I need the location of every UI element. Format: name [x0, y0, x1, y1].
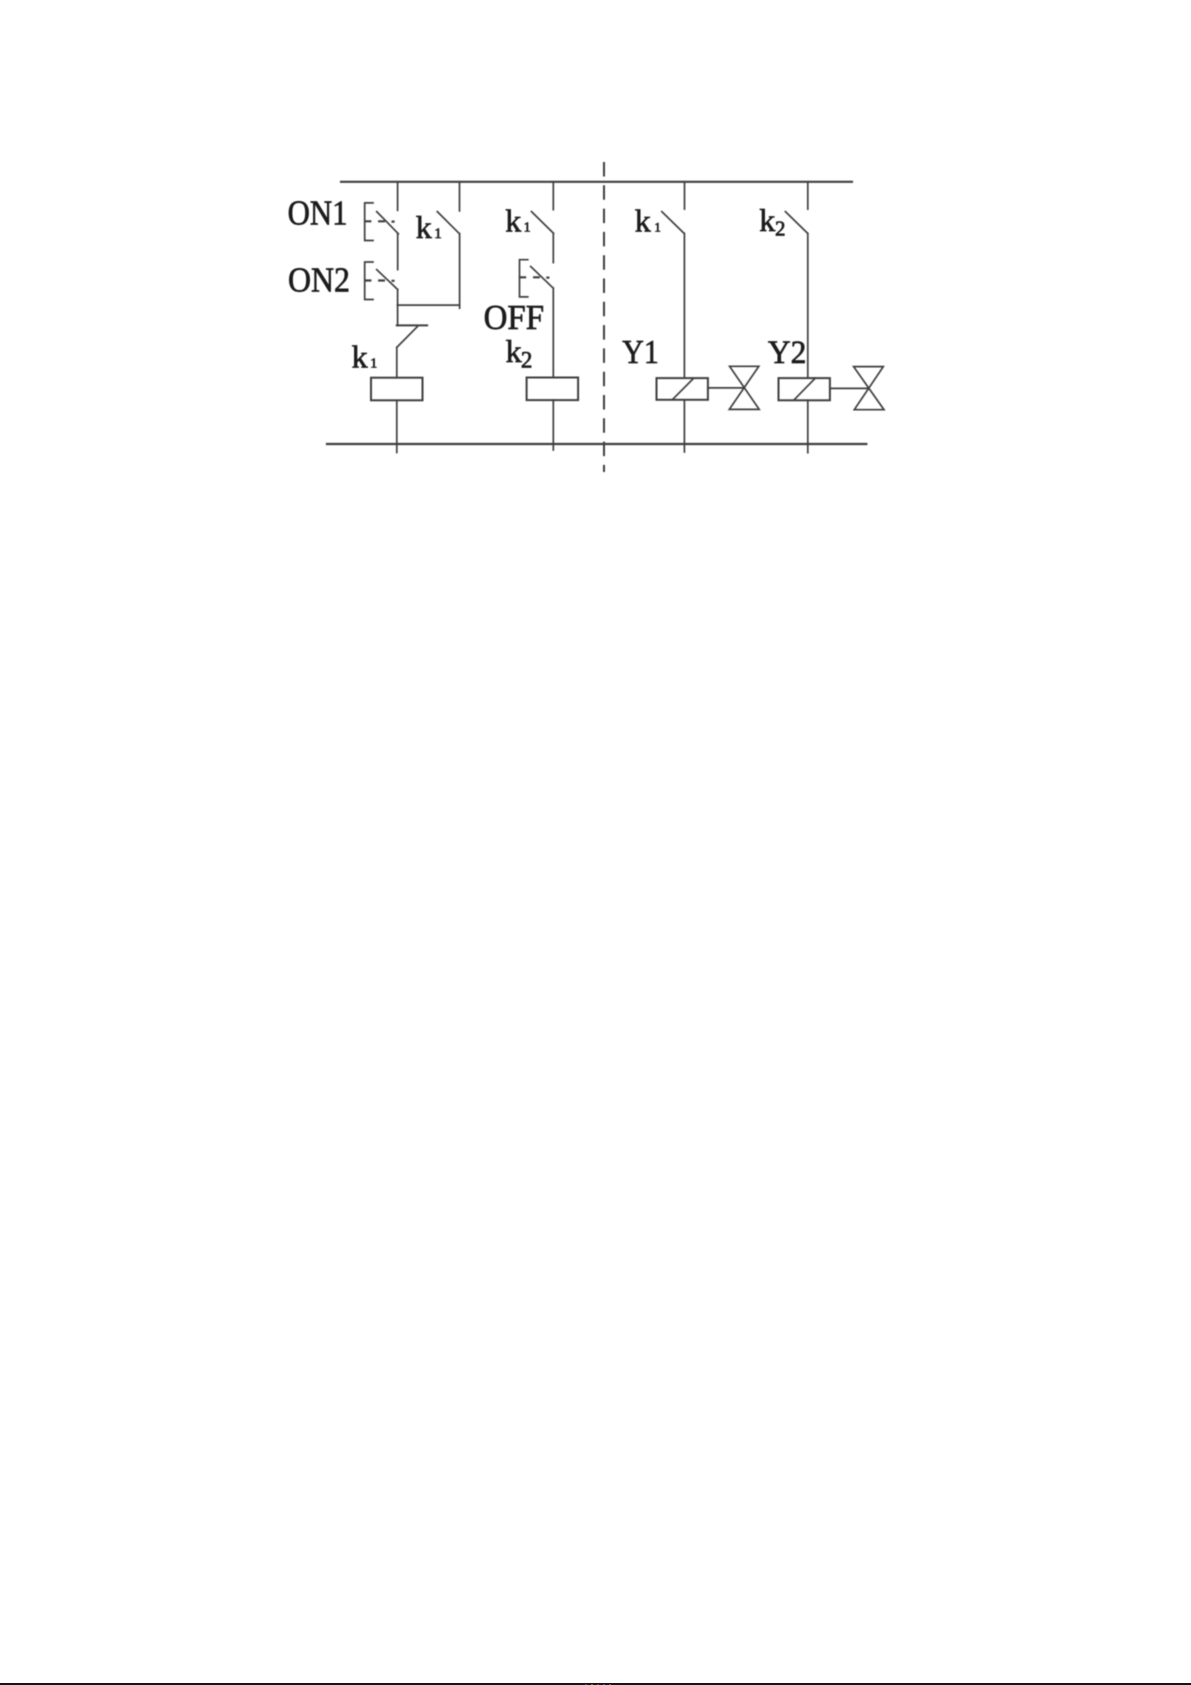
wire NC contact to coil K1 — [396, 347, 398, 377]
contact k1 NO (rung2) blade — [532, 212, 554, 234]
svg-text:1: 1 — [370, 356, 377, 371]
wire OFF to coil K2 — [552, 288, 554, 377]
section divider dashed line — [603, 162, 605, 472]
svg-text:OFF: OFF — [484, 298, 544, 337]
contact k1 NC blade — [397, 327, 417, 348]
svg-text:k: k — [416, 209, 432, 245]
solenoid Y2 diagonal — [795, 378, 816, 399]
wire contact to OFF button — [552, 233, 554, 262]
svg-text:k: k — [352, 338, 368, 374]
label k1 (NC) — [352, 338, 378, 374]
valve 2 (two-triangle symbol) — [854, 367, 884, 410]
wire solenoid Y1 to valve 1 — [708, 387, 744, 389]
svg-text:ON1: ON1 — [288, 194, 348, 233]
svg-text:ON2: ON2 — [288, 261, 350, 300]
svg-text:2: 2 — [775, 217, 786, 241]
wire contact to solenoid Y2 — [807, 233, 809, 378]
solenoid coil Y2 box — [779, 378, 830, 400]
label k2 (coil label) — [506, 333, 533, 373]
valve 1 (two-triangle symbol) — [729, 366, 759, 409]
wire ON2 to join node — [397, 290, 399, 306]
svg-text:k: k — [759, 202, 775, 238]
wire solenoid Y1 to bottom rail — [683, 400, 685, 452]
svg-text:1: 1 — [654, 219, 661, 234]
pushbutton OFF (NO, momentary) — [519, 260, 553, 297]
contact k2 NO (rung4) blade — [785, 212, 807, 234]
bottom power rail — [327, 443, 866, 445]
wire solenoid Y2 to valve 2 — [830, 387, 869, 389]
wire coil K2 to bottom rail — [552, 400, 554, 450]
rung2 drop from top rail — [552, 182, 554, 210]
label k1 (rung3) — [635, 203, 661, 239]
svg-text:Y2: Y2 — [768, 335, 807, 371]
contact k1 NC below join — [397, 305, 399, 325]
wire seal-in join bar — [398, 304, 460, 306]
wire rung1 drop from top rail — [397, 182, 399, 211]
contact k1 NC bar — [397, 324, 427, 326]
wire ON1 to ON2 — [397, 234, 399, 270]
svg-text:1: 1 — [524, 221, 531, 236]
relay coil K2 — [527, 378, 579, 401]
wire seal-in contact to join bar — [459, 234, 461, 309]
wire contact to solenoid Y1 — [683, 233, 685, 378]
rung4 drop from top rail — [807, 182, 809, 209]
svg-text:k: k — [635, 203, 651, 239]
footer page number speck — [585, 1684, 587, 1685]
relay coil K1 — [371, 378, 423, 401]
svg-text:Y1: Y1 — [622, 334, 659, 371]
contact k1 NO seal-in blade — [437, 212, 459, 234]
svg-text:k: k — [505, 202, 521, 238]
contact k1 NO (rung3) blade — [662, 212, 684, 234]
footer rule — [0, 1683, 1191, 1685]
rung3 drop from top rail — [684, 182, 686, 209]
top power rail — [341, 181, 852, 183]
svg-text:2: 2 — [521, 347, 533, 372]
label k1 (seal-in) — [416, 209, 442, 245]
svg-text:k: k — [506, 333, 522, 369]
solenoid Y1 diagonal — [673, 379, 693, 399]
svg-text:1: 1 — [434, 226, 442, 242]
label k2 (rung4) — [759, 202, 785, 241]
contact k1 NO seal-in: drop from top rail — [459, 182, 461, 211]
solenoid coil Y1 box — [657, 378, 708, 400]
pushbutton ON2 (NO, momentary) — [364, 262, 398, 300]
wire coil K1 to bottom rail — [396, 400, 398, 452]
wire solenoid Y2 to bottom rail — [807, 400, 809, 452]
label k1 (rung2) — [505, 202, 530, 238]
pushbutton ON1 (NO, momentary) — [364, 203, 398, 241]
